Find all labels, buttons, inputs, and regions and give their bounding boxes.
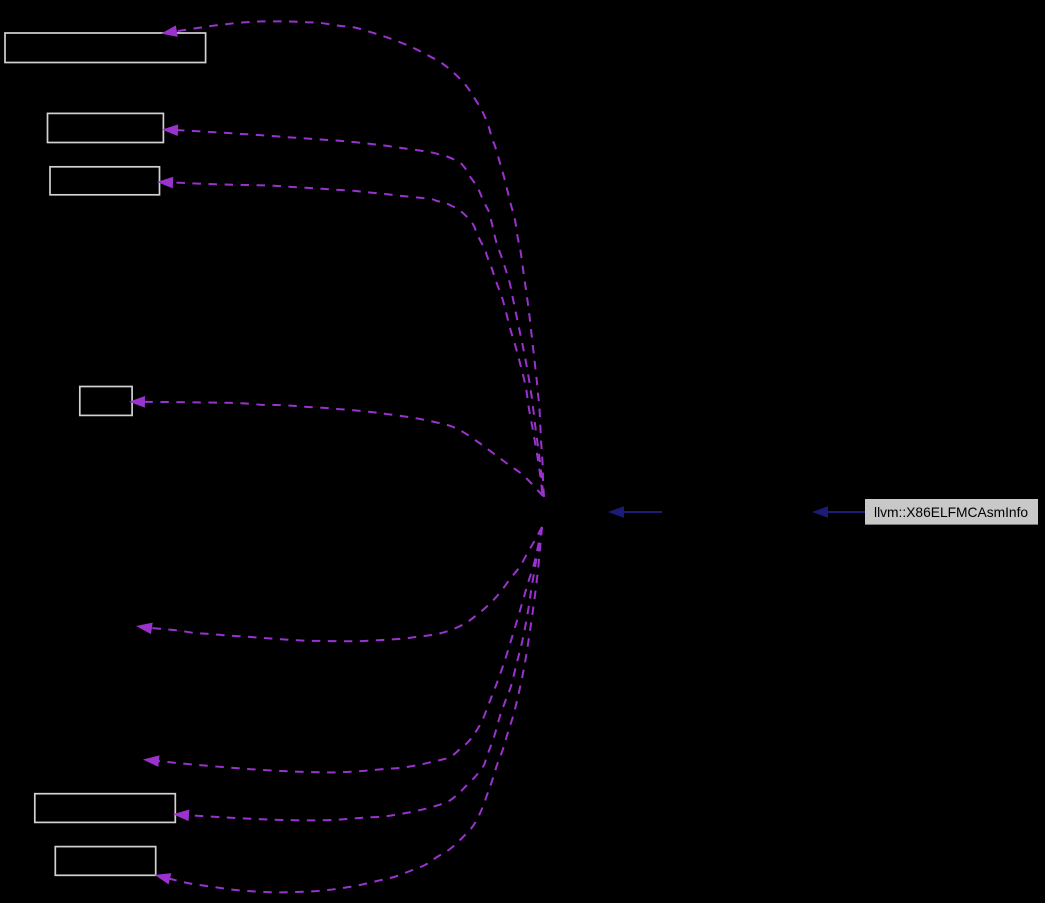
svg-text:llvm::X86ELFMCAsmInfo: llvm::X86ELFMCAsmInfo (874, 505, 1028, 520)
